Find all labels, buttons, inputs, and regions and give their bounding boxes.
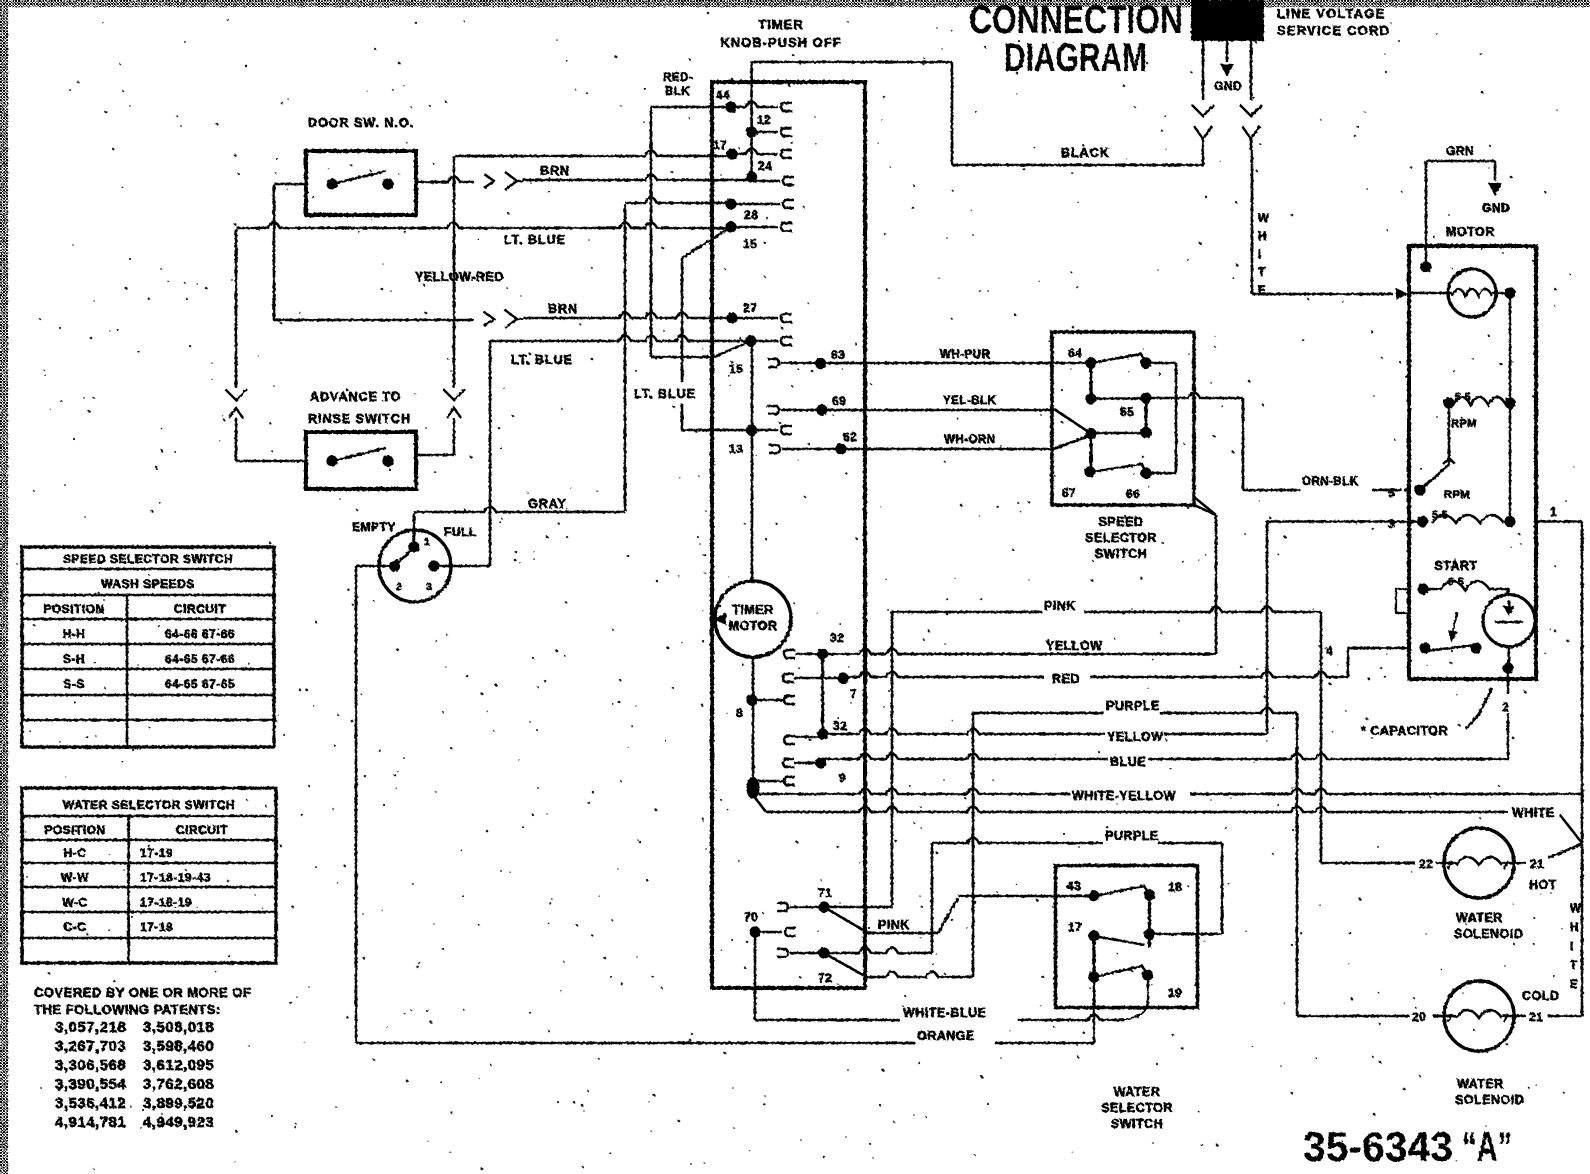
- terminal 24: [750, 132, 753, 177]
- svg-text:SERVICE CORD: SERVICE CORD: [1277, 23, 1390, 38]
- wire PURPLE 72 to COLD solenoid 20: [863, 972, 973, 978]
- wire BRN door-sw to 24: [416, 177, 474, 183]
- wire to 17 from advance connector: [454, 151, 732, 157]
- connector Y right: [1242, 126, 1260, 139]
- svg-text:18: 18: [1168, 880, 1182, 894]
- svg-text:ORANGE: ORANGE: [917, 1029, 975, 1043]
- table WATER SELECTOR SWITCH: [22, 788, 276, 963]
- motor main winding circle: [1448, 269, 1496, 317]
- svg-text:69: 69: [832, 394, 846, 408]
- table SPEED SELECTOR SWITCH: [22, 547, 274, 747]
- wire service cord left drop: [1202, 41, 1205, 100]
- terminal 32 (lower): [784, 736, 795, 744]
- svg-text:LT. BLUE: LT. BLUE: [634, 387, 696, 401]
- blade 19: [1094, 966, 1148, 977]
- svg-text:17-19: 17-19: [140, 846, 173, 860]
- svg-text:PINK: PINK: [878, 918, 910, 932]
- svg-text:TIMER: TIMER: [758, 17, 803, 32]
- svg-text:GRAY: GRAY: [528, 497, 567, 511]
- wire advance left to LT.BLUE riser: [236, 460, 306, 463]
- svg-text:S-S: S-S: [63, 677, 85, 691]
- svg-text:BRN: BRN: [540, 164, 570, 178]
- right rail down: [1581, 522, 1584, 1017]
- svg-text:13: 13: [729, 442, 743, 456]
- wire 65 to motor 5 (ORN-BLK): [1146, 393, 1243, 399]
- svg-text:W: W: [1258, 213, 1269, 225]
- wire RED-BLK (44 to 15 via V1): [651, 106, 731, 109]
- blade 71 to PINK2: [824, 907, 863, 930]
- svg-text:ORN-BLK: ORN-BLK: [1302, 476, 1359, 488]
- advance switch contacts: [326, 455, 337, 466]
- svg-text:1: 1: [1550, 505, 1557, 519]
- svg-text:START: START: [1434, 559, 1477, 573]
- svg-text:62: 62: [843, 430, 857, 444]
- svg-text:KNOB-PUSH OFF: KNOB-PUSH OFF: [720, 35, 841, 50]
- wire 65 link: [1091, 397, 1146, 400]
- svg-text:3,612,095: 3,612,095: [143, 1057, 214, 1074]
- svg-text:PINK: PINK: [1044, 599, 1076, 613]
- svg-text:SPEED: SPEED: [1099, 515, 1144, 529]
- blade 62 entry: [1054, 435, 1091, 449]
- svg-text:32: 32: [833, 719, 847, 733]
- svg-text:PURPLE: PURPLE: [1105, 829, 1159, 843]
- svg-text:20: 20: [1412, 1010, 1426, 1024]
- speed selector switch box: [1052, 332, 1194, 505]
- terminal 27: [726, 312, 737, 323]
- blade 15 to LT.BLUE2 riser: [682, 227, 731, 258]
- wire GRN to motor gnd: [1426, 160, 1495, 163]
- svg-text:4,949,923: 4,949,923: [143, 1114, 214, 1131]
- border frame left: [0, 0, 8, 1174]
- svg-text:E: E: [1570, 979, 1578, 991]
- wire advance right to 17 riser: [416, 454, 454, 457]
- svg-text:19: 19: [1168, 986, 1182, 1000]
- svg-text:5 5: 5 5: [1432, 509, 1448, 521]
- svg-text:64-65 67-66: 64-65 67-66: [165, 652, 235, 666]
- svg-text:CIRCUIT: CIRCUIT: [174, 602, 226, 616]
- terminal 17: [726, 148, 737, 159]
- svg-text:COVERED BY ONE OR MORE OF: COVERED BY ONE OR MORE OF: [34, 985, 251, 1000]
- svg-text:3,762,608: 3,762,608: [143, 1076, 214, 1093]
- svg-text:LT. BLUE: LT. BLUE: [511, 353, 573, 367]
- svg-text:BLACK: BLACK: [1061, 146, 1110, 160]
- svg-text:COLD: COLD: [1522, 989, 1559, 1003]
- svg-text:3,508,018: 3,508,018: [143, 1019, 214, 1036]
- svg-text:C-C: C-C: [64, 920, 87, 934]
- wire service cord gnd center drop: [1226, 41, 1229, 62]
- svg-text:2: 2: [396, 581, 402, 593]
- arrow at timer box edge left of timer motor: [712, 613, 726, 625]
- svg-text:RPM: RPM: [1451, 418, 1477, 430]
- connector pair right (YELLOW-RED): [443, 389, 465, 400]
- wire WHITE-YELLOW junction8 to right rail: [753, 789, 1070, 795]
- svg-text:BLK: BLK: [665, 86, 690, 98]
- wire LT.BLUE2 riser to 13: [681, 258, 684, 382]
- svg-text:BLUE: BLUE: [1110, 755, 1146, 769]
- door switch box: [306, 151, 416, 215]
- motor box: [1409, 246, 1536, 679]
- svg-text:I: I: [1258, 249, 1262, 261]
- svg-text:RED: RED: [1052, 672, 1080, 686]
- speed selector corner exit: [1194, 505, 1216, 515]
- border frame top: [0, 0, 1590, 7]
- door switch contacts: [326, 178, 337, 189]
- start coil: [1417, 583, 1428, 594]
- terminal 69: [768, 406, 779, 414]
- svg-text:WHITE: WHITE: [1512, 806, 1555, 820]
- svg-text:43: 43: [1067, 879, 1081, 893]
- terminal 7: [783, 674, 794, 682]
- wire WHITE-BLUE 70 to water selector 19: [754, 932, 757, 1020]
- terminal 8: [784, 696, 795, 704]
- svg-text:3,306,568: 3,306,568: [55, 1057, 126, 1074]
- connector pair left: [225, 389, 247, 400]
- svg-text:15: 15: [729, 362, 743, 376]
- wire 21 to white rail: [1548, 844, 1582, 858]
- svg-text:71: 71: [818, 886, 832, 900]
- wire main vertical 15-13-timer motor: [751, 341, 754, 581]
- svg-text:64-65 67-65: 64-65 67-65: [165, 677, 235, 691]
- svg-text:7: 7: [850, 687, 857, 701]
- terminal 63: [768, 359, 779, 367]
- wire PINK 71 to HOT solenoid 22: [824, 906, 892, 909]
- wire BLACK: [952, 164, 1204, 167]
- svg-text:“A”: “A”: [1462, 1123, 1512, 1170]
- svg-text:4,914,781: 4,914,781: [55, 1114, 126, 1131]
- svg-text:YELLOW-RED: YELLOW-RED: [415, 270, 504, 284]
- blade 15 to 44-wire: [714, 341, 751, 357]
- svg-text:5: 5: [1388, 486, 1395, 500]
- svg-text:44: 44: [716, 88, 730, 102]
- svg-text:RINSE SWITCH: RINSE SWITCH: [308, 412, 411, 426]
- svg-text:1: 1: [424, 536, 430, 548]
- svg-text:T: T: [1570, 960, 1578, 972]
- wire ORANGE water level to water selector: [356, 1042, 915, 1045]
- svg-text:WH-PUR: WH-PUR: [940, 349, 990, 361]
- svg-text:MOTOR: MOTOR: [1446, 225, 1495, 239]
- svg-text:DOOR SW. N.O.: DOOR SW. N.O.: [308, 116, 414, 130]
- svg-text:63: 63: [831, 348, 845, 362]
- water selector contacts: [1088, 890, 1099, 901]
- svg-text:H-H: H-H: [63, 627, 86, 641]
- line voltage service cord black box: [1191, 0, 1264, 41]
- wire PINK2 to water selector 43: [863, 932, 938, 935]
- svg-text:ADVANCE TO: ADVANCE TO: [310, 390, 402, 404]
- svg-text:GND: GND: [1482, 201, 1510, 215]
- svg-text:W-C: W-C: [62, 895, 87, 909]
- svg-text:64-66 67-66: 64-66 67-66: [165, 627, 235, 641]
- wire BLUE 9 to capacitor 2: [821, 754, 1108, 760]
- blade 17: [1094, 936, 1145, 945]
- svg-text:67: 67: [1062, 486, 1076, 500]
- svg-text:17: 17: [1068, 920, 1082, 934]
- timer motor: [715, 581, 791, 657]
- svg-text:9: 9: [839, 771, 846, 785]
- speed selector contacts: [1085, 357, 1096, 368]
- svg-text:TIMER: TIMER: [732, 603, 773, 617]
- svg-text:15: 15: [743, 237, 757, 251]
- water solenoid COLD: [1444, 981, 1514, 1051]
- svg-text:21: 21: [1529, 1010, 1543, 1024]
- terminal 15 (mid): [745, 335, 756, 346]
- wire water level FULL to 15: [434, 565, 490, 568]
- svg-text:YEL-BLK: YEL-BLK: [943, 395, 997, 407]
- svg-text:3,267,703: 3,267,703: [55, 1038, 126, 1055]
- start switch arrow: [1452, 612, 1457, 636]
- svg-text:SELECTOR: SELECTOR: [1101, 1101, 1173, 1115]
- svg-text:MOTOR: MOTOR: [729, 619, 778, 633]
- advance switch box: [306, 432, 416, 489]
- terminal 72: [777, 949, 788, 957]
- wire water-level FULL to 15: [490, 336, 751, 342]
- svg-text:3: 3: [426, 581, 432, 593]
- wire GRAY water level common to 28: [413, 513, 416, 547]
- svg-text:28: 28: [744, 208, 758, 222]
- svg-text:DIAGRAM: DIAGRAM: [1004, 36, 1147, 80]
- terminal 62: [769, 445, 780, 453]
- wire 64 to 66 inner loop: [1146, 362, 1176, 365]
- timer assembly box: [712, 82, 865, 988]
- terminal 8 tab lower: [784, 777, 795, 785]
- svg-text:3,057,218: 3,057,218: [55, 1019, 126, 1036]
- wire 1 to right rail: [1536, 520, 1582, 523]
- wire YELLOW 32 to speed selector corner: [823, 649, 1216, 655]
- wire GRAY-28 vertical entry: [625, 198, 731, 204]
- wire water level EMPTY to ORANGE: [356, 565, 395, 568]
- water level contacts: [389, 560, 400, 571]
- svg-text:WATER SELECTOR SWITCH: WATER SELECTOR SWITCH: [63, 798, 235, 812]
- small terminal block on motor left edge: [1396, 589, 1409, 613]
- svg-text:GRN: GRN: [1446, 144, 1474, 158]
- svg-text:22: 22: [1419, 857, 1433, 871]
- wire D-F link: [1091, 432, 1146, 435]
- svg-text:5 5: 5 5: [1448, 576, 1464, 588]
- svg-text:* CAPACITOR: * CAPACITOR: [1361, 724, 1448, 738]
- svg-text:POSITION: POSITION: [44, 823, 105, 837]
- svg-text:3,899,520: 3,899,520: [143, 1095, 214, 1112]
- svg-text:SWITCH: SWITCH: [1095, 547, 1147, 561]
- terminal 70: [749, 926, 760, 937]
- svg-text:2: 2: [1502, 700, 1509, 714]
- svg-text:17-18-19-43: 17-18-19-43: [140, 871, 211, 885]
- svg-text:BRN: BRN: [548, 302, 578, 316]
- svg-text:WATER: WATER: [1457, 1077, 1504, 1091]
- motor speed switch blade: [1420, 465, 1449, 490]
- blade 43-18: [1094, 886, 1150, 896]
- blade 72 to PURPLE: [824, 953, 863, 975]
- wire WHITE junction8 to right rail: [753, 795, 766, 812]
- svg-text:17-19: 17-19: [140, 920, 173, 934]
- svg-text:8: 8: [736, 706, 743, 720]
- connector Y left: [1194, 126, 1212, 139]
- terminal 9: [783, 759, 794, 767]
- wire LT.BLUE to 15: [236, 223, 731, 229]
- svg-text:3,598,460: 3,598,460: [143, 1038, 214, 1055]
- svg-text:GND: GND: [1214, 79, 1242, 93]
- start/centrifugal circle: [1483, 595, 1535, 647]
- svg-text:EMPTY: EMPTY: [352, 520, 396, 534]
- svg-text:THE FOLLOWING PATENTS:: THE FOLLOWING PATENTS:: [34, 1002, 221, 1017]
- svg-text:70: 70: [744, 910, 758, 924]
- water solenoid HOT: [1444, 828, 1514, 898]
- blade 66: [1090, 464, 1146, 473]
- svg-text:SOLENOID: SOLENOID: [1455, 1093, 1524, 1107]
- svg-text:66: 66: [1126, 487, 1140, 501]
- svg-text:H: H: [1258, 231, 1267, 243]
- svg-text:24: 24: [758, 159, 772, 173]
- wire WHITE (service cord to motor): [1251, 150, 1254, 294]
- water level switch: [379, 530, 451, 602]
- svg-text:WASH SPEEDS: WASH SPEEDS: [101, 577, 195, 591]
- wire BRN2 door-sw left loop to 27: [274, 183, 306, 186]
- wire service cord right drop: [1250, 41, 1253, 100]
- motor coil 2: [1417, 516, 1428, 527]
- svg-text:WATER: WATER: [1456, 911, 1503, 925]
- terminal 44: [725, 101, 736, 112]
- svg-text:32: 32: [830, 631, 844, 645]
- svg-text:12: 12: [757, 113, 771, 127]
- wire YELLOW2 32 to motor 3: [823, 729, 1105, 735]
- svg-text:5 5: 5 5: [1455, 391, 1471, 403]
- svg-text:E: E: [1258, 285, 1266, 297]
- svg-text:LT. BLUE: LT. BLUE: [504, 233, 566, 247]
- terminal 13: [746, 424, 757, 435]
- terminal 15 (top): [725, 221, 736, 232]
- svg-text:21: 21: [1530, 857, 1544, 871]
- svg-text:WH-ORN: WH-ORN: [944, 434, 996, 446]
- water selector switch box: [1056, 866, 1198, 1008]
- svg-text:64: 64: [1068, 346, 1082, 360]
- svg-text:WATER: WATER: [1114, 1085, 1161, 1099]
- motor right rail: [1509, 293, 1511, 522]
- svg-text:WHITE-YELLOW: WHITE-YELLOW: [1072, 789, 1176, 803]
- svg-text:HOT: HOT: [1529, 878, 1557, 892]
- wire PURPLE2 72 to water selector 18: [824, 948, 932, 954]
- terminal 12: [750, 62, 753, 132]
- svg-text:4: 4: [1326, 644, 1333, 658]
- svg-text:CIRCUIT: CIRCUIT: [176, 823, 228, 837]
- terminal 28: [725, 198, 736, 209]
- wire RED 7 to motor 4: [843, 672, 1044, 678]
- svg-text:17: 17: [713, 138, 727, 152]
- svg-text:72: 72: [818, 971, 832, 985]
- svg-text:65: 65: [1120, 405, 1134, 419]
- svg-text:T: T: [1258, 267, 1266, 279]
- svg-text:SWITCH: SWITCH: [1111, 1117, 1163, 1131]
- svg-text:POSITION: POSITION: [43, 602, 104, 616]
- svg-text:W-W: W-W: [61, 871, 89, 885]
- wire capacitor drop: [1508, 646, 1511, 668]
- terminal 4 and start blade: [1419, 642, 1430, 653]
- wire timer motor to junction 8: [752, 657, 755, 783]
- svg-text:LINE VOLTAGE: LINE VOLTAGE: [1277, 6, 1386, 21]
- wire cold 21 to rail: [1548, 1015, 1582, 1018]
- svg-text:RPM: RPM: [1444, 489, 1470, 501]
- svg-text:H-C: H-C: [64, 846, 87, 860]
- svg-text:W: W: [1570, 903, 1581, 915]
- blade 64: [1091, 354, 1146, 363]
- svg-text:SOLENOID: SOLENOID: [1454, 927, 1523, 941]
- svg-text:SPEED SELECTOR SWITCH: SPEED SELECTOR SWITCH: [63, 552, 233, 566]
- terminal 71: [777, 903, 788, 911]
- svg-text:3: 3: [1388, 517, 1395, 531]
- blade 69 entry: [1054, 409, 1091, 434]
- svg-text:I: I: [1570, 941, 1574, 953]
- svg-text:RED-: RED-: [663, 72, 693, 84]
- svg-text:YELLOW: YELLOW: [1046, 639, 1102, 653]
- svg-text:S-H: S-H: [63, 652, 85, 666]
- svg-text:3,536,412: 3,536,412: [55, 1095, 126, 1112]
- svg-text:YELLOW: YELLOW: [1107, 730, 1163, 744]
- svg-text:SELECTOR: SELECTOR: [1085, 531, 1157, 545]
- svg-text:3,390,554: 3,390,554: [55, 1076, 126, 1093]
- svg-text:H: H: [1570, 922, 1579, 934]
- svg-text:35-6343: 35-6343: [1303, 1123, 1453, 1170]
- svg-text:FULL: FULL: [444, 525, 477, 539]
- svg-text:17-18-19: 17-18-19: [140, 895, 192, 909]
- motor coil 1 (wash speed): [1443, 397, 1454, 408]
- terminal 32 (upper): [784, 650, 795, 658]
- svg-text:PURPLE: PURPLE: [1106, 699, 1160, 713]
- svg-text:WHITE-BLUE: WHITE-BLUE: [903, 1006, 986, 1020]
- strap 32-32: [821, 654, 824, 734]
